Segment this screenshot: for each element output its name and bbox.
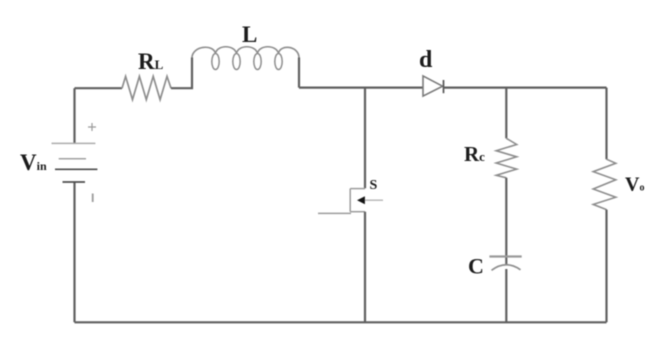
capacitor C bottom plate (curved)	[492, 265, 521, 271]
wire: diode cathode to top-right corner	[444, 86, 607, 88]
battery Vin plate 2 (short, light)	[59, 158, 86, 160]
svg-text:L: L	[242, 22, 257, 47]
resistor RC zigzag	[496, 138, 517, 178]
wire: inductor right drop	[298, 58, 300, 88]
svg-text:d: d	[419, 47, 433, 73]
transistor S gate + source lead	[350, 211, 365, 213]
transistor S channel bar	[349, 189, 351, 212]
wire: right rail top	[605, 88, 607, 160]
transistor S arrow	[357, 196, 365, 204]
svg-text:RL: RL	[138, 49, 164, 74]
wire: left rail bottom (battery minus to bottom rail)	[73, 182, 75, 322]
svg-text:Rc: Rc	[464, 142, 485, 166]
battery Vin plate 1 (long, light)	[52, 142, 96, 144]
inductor L loop 4	[275, 54, 282, 70]
transistor S body line	[365, 199, 383, 201]
svg-text:C: C	[468, 254, 484, 279]
inductor L coil arches	[192, 47, 299, 58]
battery plus sign	[88, 123, 96, 131]
svg-text:Vo: Vo	[625, 174, 644, 196]
resistor Vo zigzag (load)	[593, 159, 616, 209]
inductor L loop 1	[212, 54, 219, 70]
resistor RL zigzag	[122, 76, 171, 99]
wire: RL to inductor riser	[171, 58, 192, 89]
wire: top-left horizontal to resistor RL	[75, 87, 123, 89]
battery Vin plate 4 (short, dark)	[63, 181, 86, 183]
wire: inductor to diode anode (node with mosfet drain)	[299, 86, 423, 88]
capacitor C top plate	[489, 255, 521, 257]
wire: bottom rail	[75, 321, 607, 323]
wire: RC branch top	[505, 88, 507, 139]
wire: right rail bottom	[605, 210, 607, 323]
inductor L loop 3	[254, 54, 261, 70]
svg-text:Vin: Vin	[20, 150, 47, 175]
wire: mosfet source to bottom rail	[364, 212, 366, 323]
wire: RC to capacitor	[505, 178, 507, 265]
battery Vin plate 3 (long, dark)	[55, 168, 97, 170]
wire: mosfet drain vertical	[364, 88, 366, 189]
battery minus sign	[92, 194, 94, 203]
wire: capacitor to bottom rail	[505, 269, 507, 322]
inductor L loop 2	[233, 54, 240, 70]
transistor S drain lead	[350, 188, 365, 190]
svg-text:S: S	[370, 178, 378, 193]
diode d cathode bar	[443, 80, 445, 93]
transistor S gate lead	[318, 212, 351, 214]
diode d triangle	[423, 76, 443, 96]
wire: left rail top vertical (battery top to top-left corner)	[73, 88, 75, 144]
